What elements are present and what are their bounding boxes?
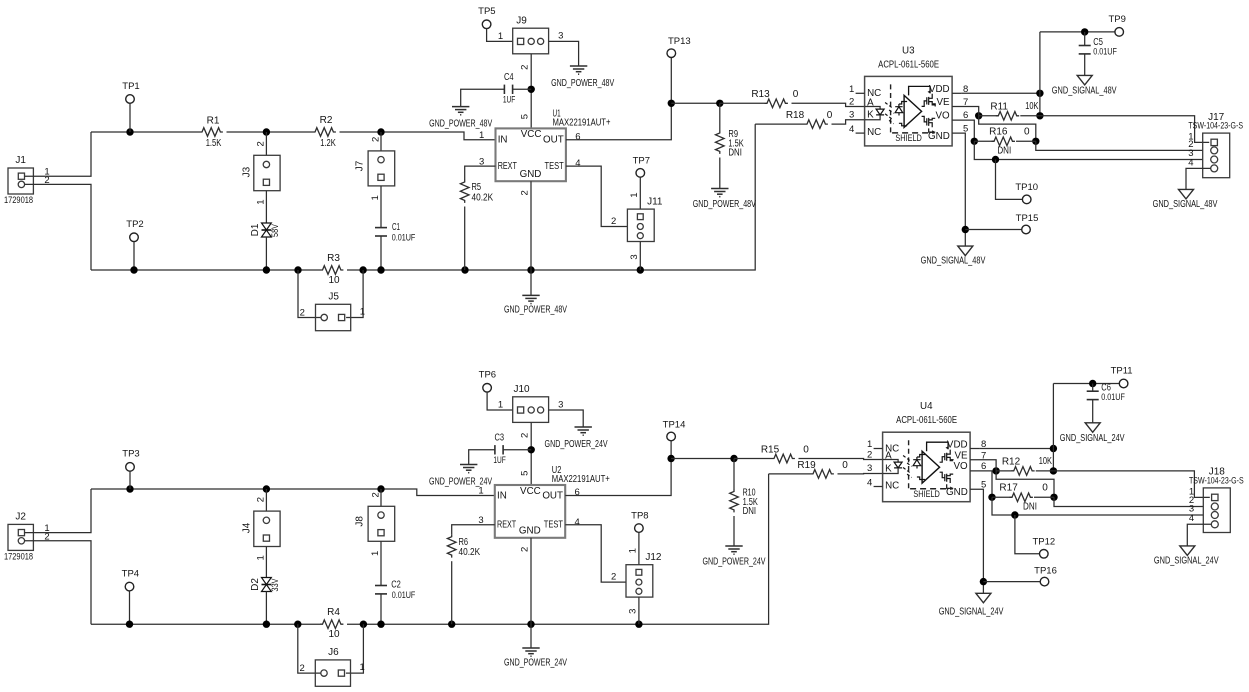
junction C5 top [1081,28,1088,35]
svg-text:0: 0 [1024,126,1030,137]
top rail segment mid1 [227,131,313,133]
U4 pin4 stub [874,486,883,488]
svg-text:OUT: OUT [542,490,563,501]
svg-text:J9: J9 [516,15,527,26]
power ground under U1 [522,295,539,303]
svg-text:3: 3 [629,254,640,259]
svg-text:U4: U4 [920,401,933,412]
svg-text:GND_SIGNAL_24V: GND_SIGNAL_24V [939,606,1004,617]
U4 shield dashed line [910,488,952,490]
wire R12 leads [996,470,1014,472]
svg-text:TP9: TP9 [1108,14,1125,25]
junction R12 right [1050,467,1057,474]
wire R11 leads [979,115,999,117]
svg-text:1: 1 [628,548,639,553]
jumper J8 box [368,506,395,541]
svg-text:3: 3 [867,463,872,474]
U4 light arrows (dashed) [903,456,912,478]
wire J10 pin3 to ground [549,410,584,427]
resistor R5 [460,180,469,203]
svg-text:1: 1 [255,199,266,204]
svg-text:1: 1 [360,306,365,317]
junction R11 left [975,112,982,119]
header J18 box [1203,488,1230,533]
jumper J12 pin1 (square) [636,569,642,575]
svg-text:4: 4 [575,158,580,169]
svg-text:GND_SIGNAL_48V: GND_SIGNAL_48V [1153,199,1218,210]
J18 pin4 (circle) [1211,521,1218,528]
wire J3 to D1 [265,191,267,223]
svg-text:R2: R2 [320,115,333,126]
junction J11 pin3-rail [637,266,644,273]
svg-text:2: 2 [611,572,616,583]
IC U2 body [495,485,565,538]
wire VO node to J17 pin3 [974,141,1202,159]
jumper J9 pin1 (square) [518,38,524,44]
junction R5-rail [461,266,468,273]
bottom rail segment left [91,269,320,271]
junction R10 top [730,455,737,462]
wire R10 node to R15 [734,458,772,460]
wire TEST to J11 [566,166,628,226]
wire R10 node to resistor [733,459,735,490]
svg-text:R4: R4 [327,607,340,618]
U4 LED cathode bracket [883,468,899,474]
svg-text:6: 6 [575,131,580,142]
connector J1 box [8,168,33,194]
svg-text:IN: IN [497,490,507,501]
J17 pin4 (circle) [1211,165,1218,172]
svg-text:0.01UF: 0.01UF [392,232,416,242]
svg-text:4: 4 [1188,157,1193,168]
svg-text:1UF: 1UF [493,455,506,466]
junction R11 right [1036,112,1043,119]
wire TP8 to J12 [638,532,640,564]
U3 isolation barrier (dashed) [890,84,892,132]
svg-text:SHIELD: SHIELD [895,133,922,144]
U4 photodiode brackets to amp [917,455,925,480]
svg-text:2: 2 [299,663,304,674]
wire R19 to opto pin K [838,473,883,475]
U4 pin1 stub [874,448,883,450]
svg-text:2: 2 [370,137,381,142]
svg-text:K: K [867,110,874,121]
svg-text:1729018: 1729018 [4,195,33,205]
U4 lower FET source arrow to GND [947,484,954,488]
signal ground under J17 [1179,189,1194,199]
wire U3 VDD pin to pullup node [961,92,1040,94]
U3 VE inner stub [933,104,936,107]
svg-text:R16: R16 [989,126,1008,137]
jumper J8 pin 2 (circle) [378,512,384,518]
U3 pin4 stub [856,132,865,134]
junction VCC-C3 [528,446,535,453]
capacitor C2 [375,586,387,594]
svg-text:GND: GND [519,526,541,537]
U3 pin8 stub [952,92,961,94]
wire R11 left down to R16 right [979,116,1036,142]
signal ground under U4 GND [976,593,991,603]
svg-text:D1: D1 [250,223,261,236]
svg-text:DNI: DNI [743,506,757,517]
svg-text:10K: 10K [1039,456,1052,467]
U4 amplifier triangle [922,451,940,483]
svg-text:J12: J12 [645,552,662,563]
U3 LED diode [876,109,884,115]
svg-text:58V: 58V [270,224,280,237]
junction TP1-rail [126,128,133,135]
wire R10 to ground [733,516,735,546]
svg-text:2: 2 [849,97,854,108]
svg-text:3: 3 [558,31,563,42]
power ground under R9 [711,189,728,197]
jumper J3 pin 2 (circle) [263,161,269,167]
jumper J12 box [626,565,653,597]
U4 VE inner stub [951,459,954,461]
U3 light arrows (dashed) [885,103,894,124]
svg-text:NC: NC [885,480,899,491]
svg-text:R3: R3 [327,253,340,264]
junction VCC-C4 [528,86,535,93]
wire to TP16 [983,581,1040,583]
wire U2 GND pin to rail and ground [530,538,532,648]
wire J10 pin2 to VCC [530,422,532,485]
junction TP13 branch [668,100,675,107]
wire J9 pin3 to ground [549,41,579,66]
junction C2-rail [377,621,384,628]
svg-text:2: 2 [520,433,531,438]
top rail segment mid [266,488,381,490]
wire R15 to opto pin A [799,459,883,460]
junction J6 left-rail [294,621,301,628]
jumper J3 pin 1 (square) [263,179,269,185]
junction R17 right [1050,494,1057,501]
wire J11 pin3 to rail [639,242,641,271]
svg-text:TP5: TP5 [478,6,495,17]
svg-text:TP15: TP15 [1016,213,1039,224]
wire J2 pin1 to top rail [25,489,91,533]
U4 source arrowhead [950,487,953,491]
svg-text:GND_POWER_24V: GND_POWER_24V [702,557,765,568]
svg-text:GND_SIGNAL_24V: GND_SIGNAL_24V [1060,433,1125,444]
junction D1-rail [263,266,270,273]
resistor R6 [447,534,456,557]
wire R12 left down to R17 right [996,471,1054,497]
wire R18 to opto pin K [832,120,865,124]
wire R13 to opto pin A [792,103,865,106]
svg-text:0: 0 [827,110,833,121]
wire TP14 branch to R10 node [671,458,734,460]
svg-text:1: 1 [629,192,640,197]
top rail segment left [91,131,200,133]
wire VDD vertical [1052,384,1054,471]
TVS diode D1 [262,223,272,237]
TVS diode D2 [262,578,272,592]
svg-text:J6: J6 [328,647,339,658]
svg-text:VE: VE [955,450,969,461]
test point TP14 [667,432,676,441]
svg-text:GND_POWER_24V: GND_POWER_24V [504,657,567,668]
power ground at C3 [460,465,477,473]
jumper J5 pin 1 (square) [339,314,345,320]
signal ground under U3 GND [958,246,973,256]
svg-text:1729018: 1729018 [4,552,33,562]
U3 photodiode [895,104,903,116]
capacitor C4 [504,85,512,94]
svg-text:MAX22191AUT+: MAX22191AUT+ [552,474,610,485]
svg-text:3: 3 [628,609,639,614]
svg-text:0: 0 [842,460,848,471]
svg-text:10K: 10K [1025,101,1038,112]
test point TP10 [1022,195,1031,204]
wire TP13 branch to R9 node [671,102,720,104]
junction C6 top [1089,380,1096,387]
test point TP3 [126,463,135,472]
svg-text:GND_SIGNAL_48V: GND_SIGNAL_48V [1052,86,1117,97]
junction VDD-vertical [1050,445,1057,452]
wire R11 right to J17 pin1 [1040,116,1209,143]
signal ground under C5 [1077,75,1092,85]
svg-text:SHIELD: SHIELD [913,489,940,500]
connector J2 box [8,524,33,550]
svg-text:R19: R19 [797,460,816,471]
wire R16 leads [974,140,994,142]
U4 output stage lower FET [940,472,954,483]
svg-text:VE: VE [937,97,951,108]
svg-text:1: 1 [849,84,854,95]
wire VDD vertical [1039,32,1041,116]
U3 LED anode bracket [865,107,881,109]
svg-text:0: 0 [1042,482,1048,493]
U3 feedback loop [909,86,931,95]
svg-text:GND_SIGNAL_48V: GND_SIGNAL_48V [921,256,986,267]
svg-text:GND_POWER_24V: GND_POWER_24V [545,439,608,450]
svg-text:D2: D2 [250,578,261,591]
wire C2 to rail [380,594,382,624]
U4 upper FET drain arrowhead [946,446,949,449]
svg-text:R13: R13 [751,89,770,100]
svg-text:1.5K: 1.5K [206,138,222,149]
J17 pin1 (square) [1211,139,1217,145]
junction J-left-rail [263,485,270,492]
wire R17 right to J18 pin2 [1054,497,1203,506]
wire C3 right to junction [503,449,531,451]
wire REXT to R6 [452,525,495,535]
svg-text:R17: R17 [999,482,1018,493]
jumper J11 box [627,209,654,241]
jumper J11 pin2 (circle) [637,224,643,230]
U3 output stage upper FET [922,94,936,107]
junction TP16 branch [980,578,987,585]
svg-text:TP1: TP1 [122,81,139,92]
svg-text:TP14: TP14 [663,420,686,431]
svg-text:VCC: VCC [520,486,541,497]
jumper J11 pin3 (circle) [637,233,643,239]
U3 shield dashed line [892,132,934,134]
wire OUT to TP14 [565,441,671,496]
resistor R19 [811,470,834,479]
junction J5 right-rail [359,266,366,273]
wire D2 to rail [265,592,267,625]
top rail segment mid2 [340,131,382,133]
svg-text:TP13: TP13 [668,36,691,47]
capacitor C1 [375,228,387,236]
resistor R1 [200,128,223,137]
svg-text:1: 1 [370,551,381,556]
J18 pin3 (circle) [1211,512,1218,519]
wire TP1 stem [129,103,131,132]
svg-text:0: 0 [803,444,809,455]
wire rail to J5 pin1 [346,270,363,318]
resistor R4 [320,620,343,629]
connector J1 pin 2 (circle) [18,181,24,187]
wire U4 GND pin to ground [970,489,983,593]
jumper J5 box [316,304,351,330]
resistor R9 [716,131,725,154]
bottom rail segment left [91,623,320,625]
wire R17 leads [992,496,1012,498]
svg-text:J3: J3 [241,166,252,177]
svg-text:1: 1 [255,555,266,560]
svg-text:TP7: TP7 [633,155,650,166]
wire rail to J6 pin1 [346,624,364,673]
svg-text:REXT: REXT [497,520,516,531]
resistor R15 [772,454,795,463]
svg-text:4: 4 [867,478,872,489]
svg-text:1: 1 [498,31,503,42]
wire TP3 stem [129,471,131,489]
wire VE to R12 left and R17 right [970,460,996,471]
jumper J6 box [315,660,350,686]
junction R6-rail [448,621,455,628]
svg-text:40.2K: 40.2K [472,192,494,203]
J18 pin1 (square) [1212,494,1218,500]
jumper J6 pin 1 (square) [338,670,344,676]
wire OUT to TP13 [566,58,671,140]
wire TEST to J12 [565,525,626,582]
wire C5 stem [1084,32,1086,46]
wire D1 to rail [265,237,267,270]
resistor R12 [1011,467,1034,476]
svg-text:10: 10 [328,275,340,286]
power ground at J10 [575,427,592,435]
wire R6 to rail [451,561,453,624]
wire U4 VDD pin to pullup node [979,448,1053,450]
wire rail to J4 [265,489,267,511]
svg-text:VDD: VDD [947,439,968,450]
wire rail to J6 pin2 [298,624,321,673]
svg-text:TP11: TP11 [1111,366,1133,377]
svg-text:1: 1 [479,130,484,141]
jumper J4 pin 1 (square) [263,535,269,541]
svg-text:R1: R1 [207,116,220,127]
jumper J10 pin2 (circle) [528,407,534,413]
jumper J6 pin 2 (circle) [321,670,327,676]
resistor R3 [320,266,343,275]
svg-text:J1: J1 [15,155,26,166]
wire TP6 to J10 [487,392,513,410]
svg-text:2: 2 [867,450,872,461]
svg-text:1: 1 [370,195,381,200]
wire TP2 stem [133,242,135,270]
svg-text:6: 6 [575,487,580,498]
U4 isolation barrier (dashed) [908,440,910,488]
U3 photodiode brackets to amp [899,102,907,126]
power ground under U2 [522,648,539,656]
jumper J10 pin3 (circle) [538,407,544,413]
wire rail-up to R19 [769,473,811,475]
wire J8 to C2 [380,541,382,585]
capacitor C3 [495,445,503,454]
svg-text:OUT: OUT [543,135,564,146]
wire R17 lead right [1034,496,1054,498]
junction J5 left-rail [294,266,301,273]
svg-text:R12: R12 [1002,456,1021,467]
U3 amplifier triangle [904,95,922,127]
wire C5 to ground [1084,54,1086,76]
svg-text:TP6: TP6 [479,370,496,381]
svg-text:J11: J11 [647,196,663,207]
wire C6 stem [1092,384,1094,392]
svg-text:C3: C3 [495,433,505,444]
junction R16 right [1032,138,1039,145]
connector J2 pin 1 (square) [18,530,24,536]
wire R12 lead right [1036,470,1054,472]
jumper J8 pin 1 (square) [378,530,384,536]
junction R12 left [992,467,999,474]
svg-text:GND: GND [928,131,950,142]
J17 pin3 (circle) [1211,156,1218,163]
junction J12 pin3-rail [635,621,642,628]
jumper J10 pin1 (square) [518,407,524,413]
junction VDD-vertical [1036,90,1043,97]
svg-text:TP3: TP3 [122,449,139,460]
jumper J5 pin 2 (circle) [321,314,327,320]
svg-text:ACPL-061L-560E: ACPL-061L-560E [878,59,939,70]
wire TP4 stem [129,591,131,624]
junction R9 top [716,100,723,107]
svg-text:MAX22191AUT+: MAX22191AUT+ [553,118,611,129]
signal ground under J18 [1180,546,1195,556]
svg-text:GND_POWER_48V: GND_POWER_48V [429,118,492,129]
wire VE to R11 left and R16 right [952,107,979,116]
connector J1 pin 1 (square) [18,173,24,179]
svg-text:ACPL-061L-560E: ACPL-061L-560E [896,415,957,426]
wire R16 right to J17 pin2 [1036,141,1203,150]
svg-text:2: 2 [520,65,531,70]
resistor R17 [1010,493,1033,502]
jumper J4 pin 2 (circle) [263,517,269,523]
svg-text:C4: C4 [504,72,514,83]
junction R17 left [988,494,995,501]
jumper J12 pin3 (circle) [636,588,642,594]
jumper J7 pin 1 (square) [378,174,384,180]
svg-text:GND_SIGNAL_24V: GND_SIGNAL_24V [1154,556,1219,567]
test point TP12 [1040,550,1049,559]
resistor R2 [313,128,336,137]
connector J2 pin 2 (circle) [18,538,24,544]
svg-text:1: 1 [498,400,503,411]
test point TP8 [635,524,644,533]
junction R16 left [971,138,978,145]
U4 photodiode [913,457,921,469]
J17 pin2 (circle) [1211,147,1218,154]
U4 feedback loop [927,442,949,451]
wire C6 to ground [1092,400,1094,423]
junction TP4-rail [126,621,133,628]
top rail segment right + step to IN pin [381,132,496,140]
svg-text:6: 6 [981,461,986,472]
